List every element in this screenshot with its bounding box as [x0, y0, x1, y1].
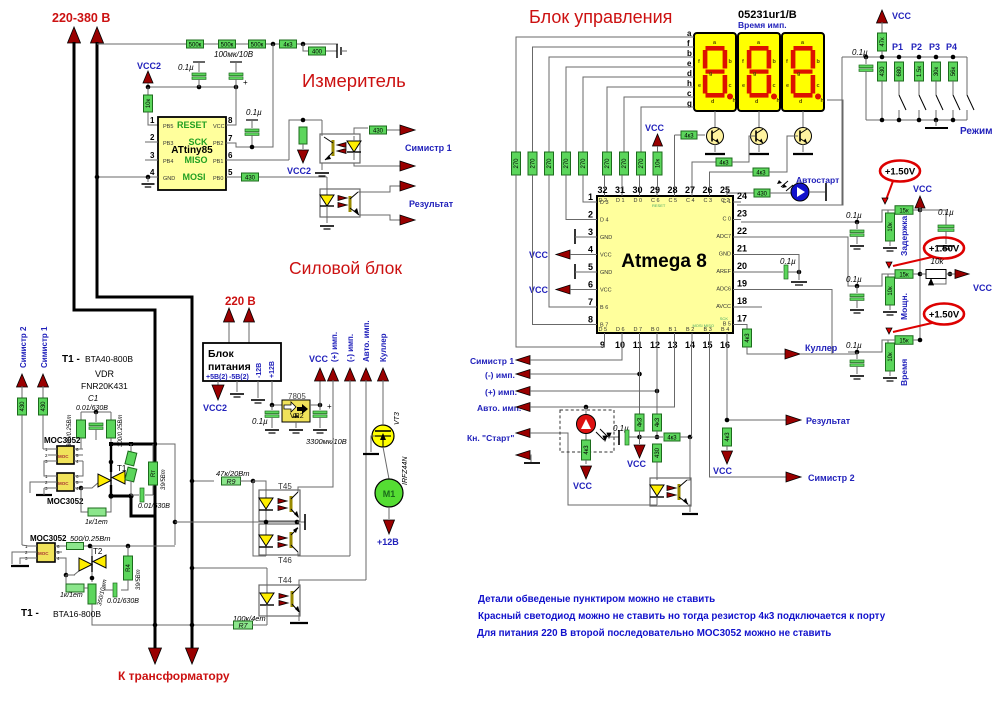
wire phase A bus	[74, 42, 155, 444]
resistor Rt	[152, 444, 154, 462]
svg-text:T2: T2	[93, 547, 103, 556]
pot 10k Время	[888, 339, 895, 341]
svg-text:FNR20K431: FNR20K431	[81, 381, 128, 391]
svg-text:0.1µ: 0.1µ	[846, 275, 862, 284]
resistor 4k3 divider	[280, 40, 297, 48]
svg-text:AVCC: AVCC	[716, 304, 731, 310]
Rezultat arrow bottom	[400, 215, 415, 225]
node divider out	[301, 42, 306, 47]
wire pin10 simistr1	[530, 341, 622, 360]
svg-text:2: 2	[588, 210, 593, 220]
resistor 500k #1	[187, 40, 204, 48]
svg-text:D 6: D 6	[616, 327, 625, 333]
svg-text:270: 270	[622, 158, 628, 169]
svg-text:C1: C1	[88, 394, 98, 403]
wire phase A bus lower	[154, 444, 157, 650]
pin 20 atmega right	[733, 271, 741, 273]
capacitor mode	[865, 57, 867, 64]
svg-text:Авто. имп.: Авто. имп.	[362, 320, 371, 362]
triac T1	[98, 474, 111, 487]
svg-text:4к3: 4к3	[283, 42, 293, 48]
wire R9 row	[192, 480, 214, 482]
wire T2 MT2	[91, 572, 93, 582]
resistor 270 b	[545, 152, 554, 175]
svg-text:3: 3	[150, 151, 155, 160]
resistor 56k P4	[949, 62, 958, 81]
svg-text:g: g	[753, 71, 756, 77]
pin 31 atmega top	[621, 188, 623, 196]
wire motor out	[388, 507, 390, 519]
snubber R small 2	[125, 467, 137, 482]
resistor 430 autostart	[754, 189, 770, 197]
right branch 0.1u	[920, 210, 946, 218]
wire t2 bottom	[92, 604, 234, 625]
svg-text:Красный светодиод можно не ста: Красный светодиод можно не ставить но то…	[478, 611, 886, 622]
svg-text:RESET: RESET	[177, 120, 208, 130]
T44 light arrows	[279, 594, 288, 599]
wire opto3 emitter gnd	[688, 505, 690, 512]
pin 18 atmega right	[733, 306, 741, 308]
svg-text:C 3: C 3	[704, 198, 713, 204]
red LED indicator	[577, 415, 596, 434]
svg-text:24: 24	[737, 191, 747, 201]
switch P2	[918, 81, 920, 95]
node pin11 bottom	[637, 435, 642, 440]
svg-text:270: 270	[605, 158, 611, 169]
svg-text:Для питания 220 В второй после: Для питания 220 В второй последовательно…	[477, 628, 831, 639]
node trim out	[948, 272, 953, 277]
wire simistr1 down	[42, 415, 44, 449]
svg-text:0.01/630В: 0.01/630В	[76, 405, 108, 412]
svg-text:Силовой блок: Силовой блок	[289, 258, 402, 278]
svg-text:26: 26	[702, 185, 712, 195]
svg-text:e: e	[742, 83, 745, 89]
svg-text:+1.50V: +1.50V	[929, 244, 960, 255]
mid terminal bar	[297, 521, 305, 523]
svg-text:Т1 -: Т1 -	[21, 608, 39, 619]
svg-text:5: 5	[588, 262, 593, 272]
resistor 430 opto3	[653, 444, 662, 462]
svg-text:питания: питания	[208, 361, 251, 373]
wire disp3 cathode	[802, 111, 804, 127]
transistor Q2	[751, 128, 768, 145]
svg-text:d: d	[711, 99, 714, 105]
wire moc2 gnd	[30, 482, 48, 493]
pin 1 atmega left	[589, 201, 597, 203]
resistor 430 simistr1	[39, 398, 48, 415]
annotation arrow zaderzhka	[886, 181, 893, 200]
transformer arrow A	[149, 648, 162, 664]
ground opto2	[326, 217, 328, 223]
opto1 LED	[347, 141, 361, 152]
svg-text:VCC: VCC	[529, 285, 549, 295]
svg-text:D 3: D 3	[600, 200, 609, 206]
svg-text:Куллер: Куллер	[379, 333, 388, 362]
svg-text:4к3: 4к3	[719, 160, 729, 166]
svg-text:(+) имп.: (+) имп.	[485, 387, 517, 397]
svg-text:+1.50V: +1.50V	[885, 167, 916, 178]
pot 10k Мощн.	[888, 273, 895, 275]
svg-text:Т46: Т46	[278, 556, 292, 565]
svg-text:g: g	[797, 71, 800, 77]
svg-text:32: 32	[597, 185, 607, 195]
gnd tick pin3	[574, 229, 576, 244]
cap adc Время	[856, 352, 858, 359]
svg-text:VCC2: VCC2	[203, 403, 227, 413]
svg-text:16: 16	[720, 340, 730, 350]
ground pot Мощн.	[889, 305, 891, 310]
wire moc3 pin4 gate	[62, 558, 75, 575]
resistor 4k3 horizontal	[664, 433, 680, 441]
svg-text:МОС3052: МОС3052	[47, 497, 84, 506]
wire +12V rail	[272, 381, 282, 405]
opto3 LED	[650, 485, 664, 496]
svg-text:47к: 47к	[880, 37, 886, 47]
capacitor aref	[784, 265, 788, 279]
svg-text:VCC: VCC	[309, 354, 329, 364]
svg-text:c: c	[817, 83, 820, 89]
svg-text:270: 270	[514, 158, 520, 169]
IC ATtiny85	[158, 117, 226, 190]
svg-text:Atmega 8: Atmega 8	[621, 251, 707, 272]
opto2 phototransistor	[349, 196, 352, 212]
svg-text:d: d	[799, 99, 802, 105]
svg-text:+12В: +12В	[269, 361, 276, 378]
opto1 phototransistor	[321, 120, 323, 136]
autostart light arrows	[786, 185, 793, 191]
pin 19 atmega right	[733, 289, 741, 291]
wire adc Задержка	[848, 210, 888, 222]
svg-text:P4: P4	[946, 42, 957, 52]
wire cap input	[326, 50, 337, 52]
wire pin2 from e res	[566, 175, 589, 220]
svg-text:h: h	[687, 79, 692, 88]
wire pin23 to zaderzhka pot	[741, 221, 857, 223]
annotation arrow moshn	[893, 257, 932, 266]
resistor 430 opto1 out	[370, 126, 387, 134]
pin 30 atmega top	[639, 188, 641, 196]
svg-text:RESET: RESET	[652, 203, 666, 208]
svg-text:f: f	[687, 39, 690, 48]
wire 1k to bus	[106, 497, 111, 512]
svg-text:4к3: 4к3	[684, 133, 694, 139]
svg-text:22: 22	[737, 226, 747, 236]
node pin12 bottom	[655, 435, 660, 440]
wire segment g	[641, 107, 694, 152]
svg-text:4к3: 4к3	[756, 170, 766, 176]
svg-text:B 1: B 1	[669, 327, 677, 333]
pin 28 atmega top	[674, 188, 676, 196]
resistor 430 pin5	[242, 173, 259, 181]
7seg display DISP1	[694, 33, 736, 111]
wire triac MT1	[110, 444, 112, 472]
svg-text:VCC: VCC	[627, 459, 647, 469]
svg-text:T1: T1	[117, 464, 127, 473]
svg-text:g: g	[709, 71, 712, 77]
svg-text:10к: 10к	[888, 352, 894, 362]
svg-text:3300мк/10В: 3300мк/10В	[306, 437, 347, 446]
svg-text:14: 14	[685, 340, 695, 350]
wire opto2 collector	[358, 186, 400, 192]
svg-text:30: 30	[632, 185, 642, 195]
svg-text:C 5: C 5	[669, 198, 678, 204]
svg-text:a: a	[687, 29, 692, 38]
svg-text:7: 7	[228, 134, 233, 143]
svg-text:Куллер: Куллер	[805, 343, 838, 353]
svg-text:+: +	[327, 402, 332, 411]
capacitor 0.1u attiny	[193, 61, 205, 63]
svg-text:VCC: VCC	[973, 283, 993, 293]
resistor 47k	[881, 22, 883, 33]
svg-text:GND: GND	[600, 270, 612, 276]
svg-text:220-380 В: 220-380 В	[52, 11, 110, 25]
wire opto3 collector	[687, 437, 690, 480]
T44 LED	[266, 568, 268, 593]
svg-text:28: 28	[667, 185, 677, 195]
svg-text:c: c	[687, 89, 692, 98]
wire segment a	[516, 37, 694, 152]
resistor 1k/1W t2	[65, 575, 67, 588]
svg-text:VCC: VCC	[213, 124, 225, 130]
svg-text:270: 270	[639, 158, 645, 169]
svg-text:VCC: VCC	[529, 250, 549, 260]
svg-text:10к: 10к	[888, 286, 894, 296]
resistor 300 right	[110, 412, 112, 420]
T46 light arrows	[278, 536, 287, 541]
svg-text:+: +	[243, 78, 248, 87]
svg-text:+12В: +12В	[377, 537, 399, 547]
wire pin19 to time pot	[741, 290, 832, 355]
wire VT3 drain to motor	[383, 447, 389, 479]
svg-text:(+) имп.: (+) имп.	[330, 332, 339, 362]
wire top pin29 reset	[657, 175, 659, 188]
Rezultat arrow top	[400, 181, 415, 191]
svg-text:56к: 56к	[951, 66, 957, 76]
wire avto imp	[530, 341, 675, 407]
pin 6 atmega left	[589, 289, 597, 291]
resistor 30k P3	[932, 62, 941, 81]
svg-text:R4: R4	[126, 564, 132, 572]
wire minus imp	[530, 373, 640, 375]
LED light arrows	[596, 432, 604, 440]
pin 32 atmega top	[604, 188, 606, 196]
svg-text:10к: 10к	[888, 222, 894, 232]
svg-text:VCC2: VCC2	[137, 61, 161, 71]
wire T45 led chain	[253, 481, 266, 556]
VCC2 arrow attiny	[143, 71, 153, 83]
svg-text:23: 23	[737, 209, 747, 219]
svg-text:1: 1	[150, 116, 155, 125]
stub pin18 avcc	[741, 306, 762, 308]
svg-text:B 0: B 0	[651, 327, 659, 333]
capacitor 100mk	[230, 61, 242, 63]
VCC2 down arrow opto1	[302, 144, 304, 149]
svg-text:g: g	[687, 99, 692, 108]
svg-text:BTA16-800В: BTA16-800В	[53, 609, 101, 619]
wire mode top rail	[842, 56, 967, 58]
plus imp arrow	[516, 387, 530, 396]
resistor 350/10W	[88, 584, 96, 604]
svg-text:2: 2	[150, 133, 155, 142]
pin 16 atmega bottom	[726, 333, 728, 341]
wire gate diag t2	[66, 570, 80, 575]
svg-text:39/5Вт: 39/5Вт	[161, 469, 167, 490]
svg-text:VCC: VCC	[600, 288, 612, 294]
pin 5 atmega left	[589, 271, 597, 273]
svg-text:C 0: C 0	[722, 217, 731, 223]
svg-text:10: 10	[615, 340, 625, 350]
wire top pin28	[674, 135, 676, 188]
svg-text:P2: P2	[911, 42, 922, 52]
thick rail top triac	[110, 443, 157, 446]
pin 2 atmega left	[589, 219, 597, 221]
VCC2 down arrow psu	[217, 381, 219, 385]
svg-text:270: 270	[581, 158, 587, 169]
wire top divider chain	[97, 43, 338, 45]
capacitor 0.1u pin7	[246, 119, 258, 121]
svg-text:430: 430	[41, 401, 47, 412]
phase B input arrow	[91, 27, 104, 43]
svg-text:VCC: VCC	[645, 123, 665, 133]
Simistr1 in arrow	[38, 374, 49, 387]
wire gate resistor loop	[81, 488, 88, 512]
resistor 4k3 pin17	[743, 329, 752, 347]
svg-text:К трансформатору: К трансформатору	[118, 669, 230, 683]
svg-text:500к: 500к	[251, 42, 264, 48]
wire pin7 from b res	[549, 175, 589, 307]
cap right 0.1u	[938, 225, 954, 228]
capacitor at divider end	[336, 44, 338, 58]
svg-text:D 1: D 1	[616, 198, 625, 204]
svg-text:500к: 500к	[221, 42, 234, 48]
wire adc Время	[848, 340, 888, 352]
wire T2 MT1	[91, 546, 93, 556]
ground aref	[798, 272, 800, 280]
ground cap psu2	[313, 429, 327, 431]
svg-text:Т44: Т44	[278, 576, 292, 585]
svg-text:MOSI: MOSI	[182, 172, 205, 182]
svg-text:680: 680	[897, 66, 903, 77]
svg-text:c: c	[729, 83, 732, 89]
svg-text:0.1µ: 0.1µ	[178, 63, 194, 72]
wire pin1 from d res	[583, 175, 589, 202]
svg-text:VCC2: VCC2	[287, 166, 311, 176]
svg-text:1: 1	[588, 192, 593, 202]
wire Q1 base	[675, 134, 682, 136]
ground attiny	[147, 177, 149, 182]
cap adc Задержка	[856, 222, 858, 229]
svg-text:1к/1ет: 1к/1ет	[60, 592, 83, 599]
svg-text:10k: 10k	[931, 257, 945, 266]
resistor 4k3 Q3	[753, 168, 769, 176]
svg-text:Измеритель: Измеритель	[302, 70, 406, 91]
autostart contact bar	[809, 191, 825, 193]
transformer arrow B	[186, 648, 199, 664]
T45 light arrows	[278, 499, 287, 504]
Simistr1 out arrow top	[400, 125, 415, 135]
wire pin13 avto	[674, 341, 676, 407]
svg-text:220 В: 220 В	[225, 296, 256, 308]
wire gate to triac	[81, 482, 99, 488]
svg-text:1к/1ет: 1к/1ет	[85, 519, 108, 526]
pin 12 atmega bottom	[656, 333, 658, 341]
svg-text:PB4: PB4	[163, 159, 173, 165]
pin 21 atmega right	[733, 254, 741, 256]
wire VR2 out	[310, 404, 320, 406]
svg-text:Симистр 1: Симистр 1	[470, 356, 514, 366]
trimmer wiper	[931, 279, 946, 284]
switch P3	[935, 81, 937, 95]
svg-text:4к3: 4к3	[745, 333, 751, 343]
svg-text:AREF: AREF	[716, 269, 731, 275]
wire VT3 source gnd	[371, 436, 375, 452]
svg-text:30к: 30к	[934, 66, 940, 76]
resistor 4k3 Q1	[681, 131, 697, 139]
Kuller right arrow	[785, 349, 800, 359]
optocoupler T45 box	[259, 490, 300, 521]
(-) imp arrow	[345, 368, 356, 381]
resistor 15k Мощн.	[895, 270, 913, 279]
svg-text:ADC6: ADC6	[716, 287, 731, 293]
resistor 1k/1W	[88, 508, 106, 516]
svg-text:B 6: B 6	[600, 305, 608, 311]
resistor 15k Задержка	[895, 206, 913, 215]
svg-text:0.1µ: 0.1µ	[252, 417, 268, 426]
wire moc1 chain	[43, 448, 48, 450]
svg-text:500к: 500к	[189, 42, 202, 48]
VCC arrow pin11 node	[639, 437, 641, 444]
wire mode bottom rail	[866, 119, 967, 121]
wire top pin25	[726, 188, 728, 193]
trimmer 10k	[920, 273, 926, 275]
ground pot Задержка	[889, 241, 891, 246]
wire top pin30	[639, 175, 641, 188]
svg-text:4к3: 4к3	[584, 445, 590, 455]
wire top pin32	[604, 175, 606, 188]
svg-text:0.1µ: 0.1µ	[780, 257, 796, 266]
resistor 270 a	[512, 152, 521, 175]
svg-text:17: 17	[737, 314, 747, 324]
node Задержка rail	[913, 209, 920, 211]
ground Q3	[802, 144, 804, 152]
svg-text:27: 27	[685, 185, 695, 195]
wire T44 collector	[299, 580, 366, 587]
svg-text:MOC: MOC	[58, 481, 69, 486]
Simistr1 left arrow	[516, 356, 530, 365]
resistor 270 f	[528, 152, 537, 175]
wire top pin26	[709, 172, 711, 188]
svg-text:R9: R9	[227, 479, 236, 486]
VCC arrow pin16	[726, 446, 728, 450]
pin 13 atmega bottom	[674, 333, 676, 341]
resistor 1k5 P2	[915, 62, 924, 81]
switch P1	[898, 81, 900, 95]
svg-text:1.5к: 1.5к	[917, 66, 923, 77]
wire pin15 simistr2	[710, 341, 787, 477]
T44 phototransistor	[291, 591, 294, 607]
node opto collector	[688, 435, 693, 440]
capacitor C1	[95, 412, 97, 422]
svg-text:12: 12	[650, 340, 660, 350]
svg-text:Детали обведеные пунктиром мож: Детали обведеные пунктиром можно не став…	[478, 594, 715, 605]
220V arrow 1	[224, 308, 235, 322]
svg-text:B 5: B 5	[723, 322, 731, 328]
svg-text:500/0.25Вт: 500/0.25Вт	[70, 534, 110, 543]
svg-text:270: 270	[564, 158, 570, 169]
pin8 attiny vcc wire	[226, 87, 236, 125]
svg-text:430: 430	[20, 401, 26, 412]
Avto imp arrow	[361, 368, 372, 381]
